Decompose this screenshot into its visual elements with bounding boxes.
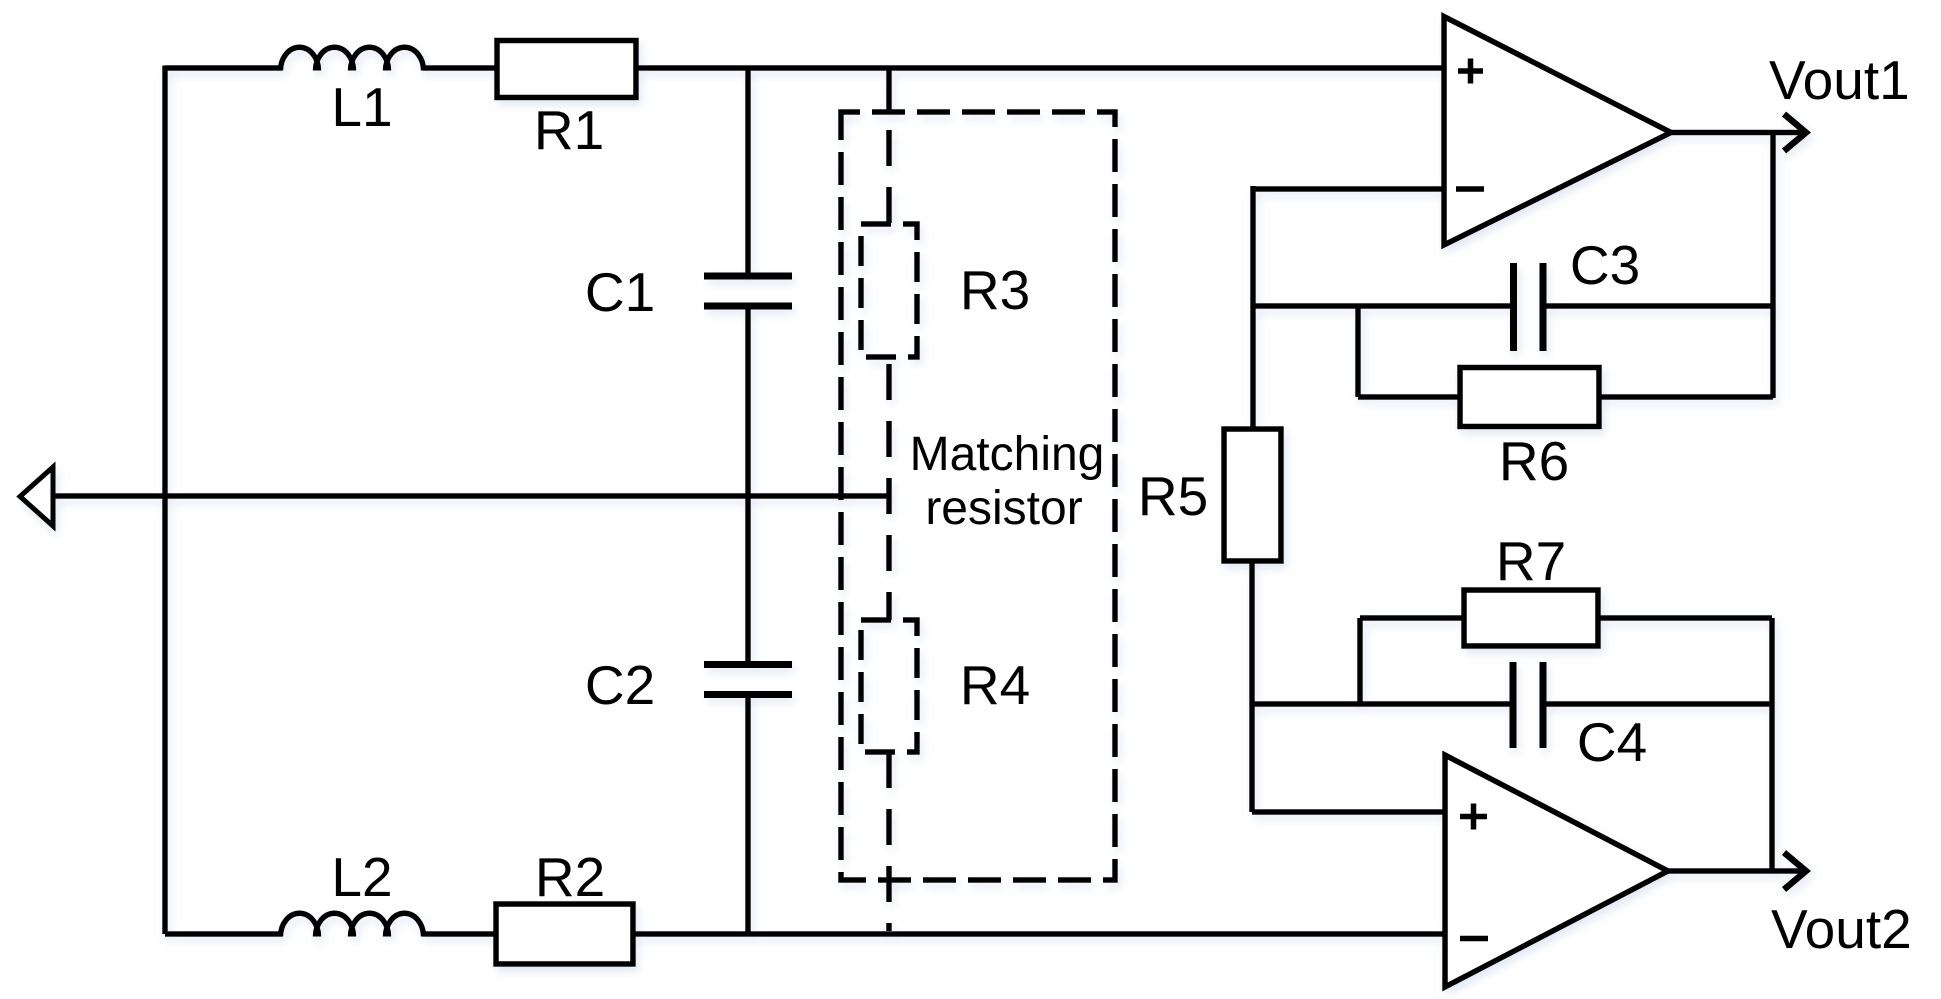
wire top rail bbox=[165, 65, 1444, 71]
svg-text:Vout1: Vout1 bbox=[1769, 49, 1910, 111]
svg-text:R2: R2 bbox=[535, 846, 605, 908]
resistor R5 bbox=[1224, 429, 1281, 561]
resistor R4 (dashed) bbox=[861, 620, 917, 752]
capacitor C2 bbox=[704, 665, 792, 695]
wire R7 branch bbox=[1360, 618, 1772, 704]
inductor L2 bbox=[281, 913, 424, 936]
wire Vout2 output bbox=[1668, 868, 1801, 874]
wire dashed center lead bottom bbox=[886, 752, 892, 931]
svg-text:L2: L2 bbox=[331, 846, 392, 908]
op-amp U2 minus pin bbox=[1460, 936, 1488, 942]
svg-text:R7: R7 bbox=[1496, 530, 1566, 592]
svg-text:C4: C4 bbox=[1577, 711, 1647, 773]
resistor R7 bbox=[1464, 590, 1598, 646]
resistor R2 bbox=[496, 904, 633, 964]
resistor R3 (dashed) bbox=[861, 224, 917, 357]
capacitor C3 bbox=[1514, 263, 1544, 351]
wire bottom rail bbox=[165, 931, 1445, 937]
svg-text:Vout2: Vout2 bbox=[1771, 898, 1912, 960]
arrow Vout1 bbox=[1784, 114, 1806, 151]
wire C1 C2 vertical bbox=[745, 68, 751, 934]
wire dashed center lead top bbox=[886, 68, 892, 112]
svg-text:C3: C3 bbox=[1570, 234, 1640, 296]
wire R5 bottom to op-amp2 plus bbox=[1252, 561, 1445, 812]
svg-text:R5: R5 bbox=[1138, 465, 1208, 527]
wire right vertical top bbox=[1770, 133, 1776, 399]
resistor R6 bbox=[1460, 368, 1599, 427]
svg-text:Matching: Matching bbox=[910, 428, 1105, 481]
input arrow (left terminal) bbox=[20, 467, 53, 526]
svg-text:R3: R3 bbox=[960, 259, 1030, 321]
op-amp U1 minus pin bbox=[1456, 186, 1484, 192]
dashed box matching resistor bbox=[841, 112, 1115, 880]
svg-text:R4: R4 bbox=[960, 654, 1030, 716]
capacitor C4 bbox=[1513, 662, 1543, 748]
op-amp U2 bbox=[1445, 755, 1668, 987]
wire left vertical bbox=[162, 66, 168, 935]
arrow Vout2 bbox=[1784, 853, 1806, 890]
op-amp U2 plus pin bbox=[1460, 804, 1487, 830]
wire middle horizontal bbox=[53, 493, 890, 499]
wire op-amp1 minus input bbox=[1253, 186, 1444, 429]
svg-text:L1: L1 bbox=[331, 76, 392, 138]
wire dashed center lead middle bbox=[886, 357, 892, 620]
svg-text:C1: C1 bbox=[585, 261, 655, 323]
svg-text:R1: R1 bbox=[534, 99, 604, 161]
op-amp U1 bbox=[1444, 17, 1671, 246]
wire right vertical bottom bbox=[1769, 618, 1775, 871]
wire R6 branch bbox=[1358, 306, 1773, 397]
wire Vout1 output bbox=[1671, 130, 1801, 136]
svg-text:R6: R6 bbox=[1499, 430, 1569, 492]
wire C3 feed bbox=[1253, 303, 1773, 309]
wire C4 feed bbox=[1253, 701, 1772, 707]
op-amp U1 plus pin bbox=[1458, 59, 1483, 84]
resistor R1 bbox=[497, 41, 636, 98]
capacitor C1 bbox=[704, 276, 792, 306]
svg-text:C2: C2 bbox=[585, 654, 655, 716]
svg-text:resistor: resistor bbox=[925, 482, 1082, 535]
inductor L1 bbox=[281, 47, 424, 70]
